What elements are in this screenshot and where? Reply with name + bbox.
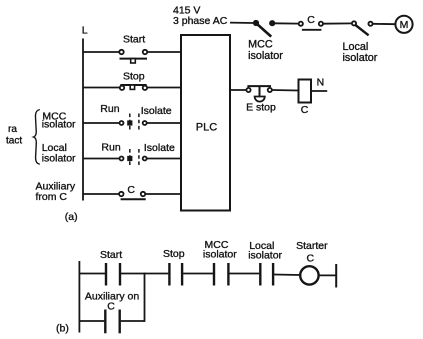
wire start rung right <box>147 51 181 53</box>
pushbutton Start (NO) <box>119 50 147 63</box>
svg-text:Start: Start <box>100 249 122 261</box>
wire ladder main rung segment 1 <box>79 273 105 275</box>
wire ladder main rung segment 5 <box>274 274 300 277</box>
wire branch rung right <box>121 320 145 322</box>
svg-text:C: C <box>127 184 135 196</box>
wire supply to MCC isolator <box>230 22 254 24</box>
contact MCC isolator (ladder) <box>214 263 228 286</box>
wire Local isolator aux rung left <box>83 158 119 160</box>
contact C (main contactor contact) <box>299 22 323 30</box>
svg-text:isolator: isolator <box>248 249 282 261</box>
contact C auxiliary (NO) <box>119 192 146 199</box>
wire branch connector to main rung <box>144 273 146 322</box>
contact Local isolator (ladder) <box>260 263 273 286</box>
svg-text:isolator: isolator <box>248 50 283 62</box>
svg-text:Stop: Stop <box>163 248 185 260</box>
switch Local isolator auxiliary (Run/Isolate) <box>120 149 147 167</box>
svg-text:(a): (a) <box>65 211 78 223</box>
svg-text:isolator: isolator <box>42 119 76 131</box>
svg-text:Isolate: Isolate <box>144 142 175 154</box>
svg-text:isolator: isolator <box>203 249 237 261</box>
wire contact C to local isolator <box>323 22 352 24</box>
svg-text:ra: ra <box>8 124 17 135</box>
label MCC isolator <box>248 39 283 62</box>
svg-text:M: M <box>400 19 409 31</box>
wire L rail <box>82 39 84 201</box>
wire ladder main rung segment 4 <box>229 273 259 275</box>
switch MCC isolator (main, open blade) <box>254 21 275 37</box>
switch Local isolator (main, open blade) <box>352 21 373 35</box>
wire ladder main rung segment 6 <box>319 274 336 276</box>
svg-text:PLC: PLC <box>196 121 217 133</box>
svg-text:3 phase AC: 3 phase AC <box>173 15 228 27</box>
svg-text:isolator: isolator <box>42 153 76 165</box>
svg-text:Run: Run <box>100 103 119 115</box>
PLC U1 <box>181 35 230 211</box>
svg-text:L: L <box>82 24 88 36</box>
wire stop rung right <box>147 87 181 89</box>
svg-text:E stop: E stop <box>246 102 276 114</box>
wire stop rung left <box>83 87 120 89</box>
contact Auxiliary on C (ladder NO branch) <box>105 310 119 334</box>
svg-text:Run: Run <box>101 141 120 153</box>
wire coil C to N <box>311 90 327 92</box>
net label 415 V 3 phase AC supply <box>173 4 228 27</box>
wire Local isolator aux rung right <box>147 158 181 160</box>
svg-text:N: N <box>317 76 325 88</box>
pushbutton E stop (NC mushroom) <box>246 86 272 101</box>
svg-text:C: C <box>301 104 309 116</box>
wire ladder left rail <box>78 261 80 333</box>
wire branch rung left <box>79 320 104 322</box>
svg-text:from C: from C <box>36 191 68 203</box>
label Local isolator (left) <box>42 142 76 165</box>
contact Start (ladder NO) <box>106 263 120 286</box>
wire ladder main rung segment 2 <box>121 273 168 275</box>
wire PLC output to E stop <box>230 89 246 91</box>
label Auxiliary on C <box>85 290 139 312</box>
svg-text:Start: Start <box>123 33 145 45</box>
label MCC isolator (left) <box>42 111 76 131</box>
svg-text:Stop: Stop <box>123 71 145 83</box>
svg-text:C: C <box>307 253 315 265</box>
label Starter C <box>296 240 328 264</box>
wire E stop to coil C <box>272 89 299 92</box>
wire start rung left <box>83 51 119 53</box>
wire auxiliary C rung right <box>145 193 181 195</box>
wire MCC isolator aux rung right <box>147 122 181 124</box>
motor M <box>395 16 412 33</box>
label Local isolator (ladder) <box>248 240 282 261</box>
svg-text:C: C <box>107 301 115 313</box>
label Local isolator <box>343 41 378 64</box>
svg-text:C: C <box>307 14 315 26</box>
brace grouping isolators <box>34 110 40 165</box>
wire MCC isolator to contact C <box>274 22 299 24</box>
label MCC isolator (ladder) <box>203 239 237 261</box>
wire MCC isolator aux rung left <box>83 122 119 124</box>
switch MCC isolator auxiliary (Run/Isolate) <box>120 114 147 132</box>
wire auxiliary C rung left <box>83 193 119 195</box>
svg-text:isolator: isolator <box>343 52 378 64</box>
contact Stop (ladder) <box>169 263 182 286</box>
svg-text:(b): (b) <box>56 322 69 334</box>
pushbutton Stop (NC) <box>120 85 147 90</box>
wire local isolator to motor <box>373 23 396 25</box>
coil Starter C (ladder output) <box>300 266 318 284</box>
coil C (contactor coil) <box>299 80 312 117</box>
wire ladder main rung segment 3 <box>183 273 213 275</box>
label Auxiliary from C <box>36 181 76 204</box>
wire ladder right rail stub <box>335 264 337 288</box>
svg-text:Isolate: Isolate <box>141 105 172 117</box>
svg-text:Starter: Starter <box>296 240 328 252</box>
svg-text:tact: tact <box>6 136 22 147</box>
